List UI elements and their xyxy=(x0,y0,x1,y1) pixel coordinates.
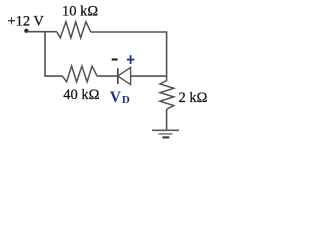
wire from R2 to diode cathode xyxy=(97,75,118,77)
wire from diode anode to node B xyxy=(131,75,167,77)
diode polarity plus sign xyxy=(127,55,134,64)
wire top from +12V dot to R1 xyxy=(27,31,58,33)
wire branch vertical from top wire down to R2 xyxy=(45,32,63,76)
wire from R3 to ground xyxy=(166,109,168,130)
svg-text:10 kΩ: 10 kΩ xyxy=(62,4,98,20)
node +12V terminal dot xyxy=(24,29,28,33)
resistor R2 40 kOhm zigzag xyxy=(63,66,98,82)
svg-text:2 kΩ: 2 kΩ xyxy=(179,90,208,106)
ground symbol bar 3 xyxy=(163,136,170,138)
diode D1 triangle xyxy=(118,67,131,84)
svg-text:+12 V: +12 V xyxy=(7,14,44,30)
diode D1 cathode bar xyxy=(117,68,119,84)
svg-text:40 kΩ: 40 kΩ xyxy=(63,87,99,103)
wire top right with corner down to node B xyxy=(91,32,167,76)
resistor R3 2 kOhm vertical zigzag xyxy=(160,76,174,109)
ground symbol bar 2 xyxy=(159,133,173,135)
ground symbol bar 1 xyxy=(152,129,179,131)
diode polarity minus sign xyxy=(112,59,118,61)
svg-text:VD: VD xyxy=(110,89,130,106)
resistor R1 10 kOhm zigzag xyxy=(57,22,91,38)
